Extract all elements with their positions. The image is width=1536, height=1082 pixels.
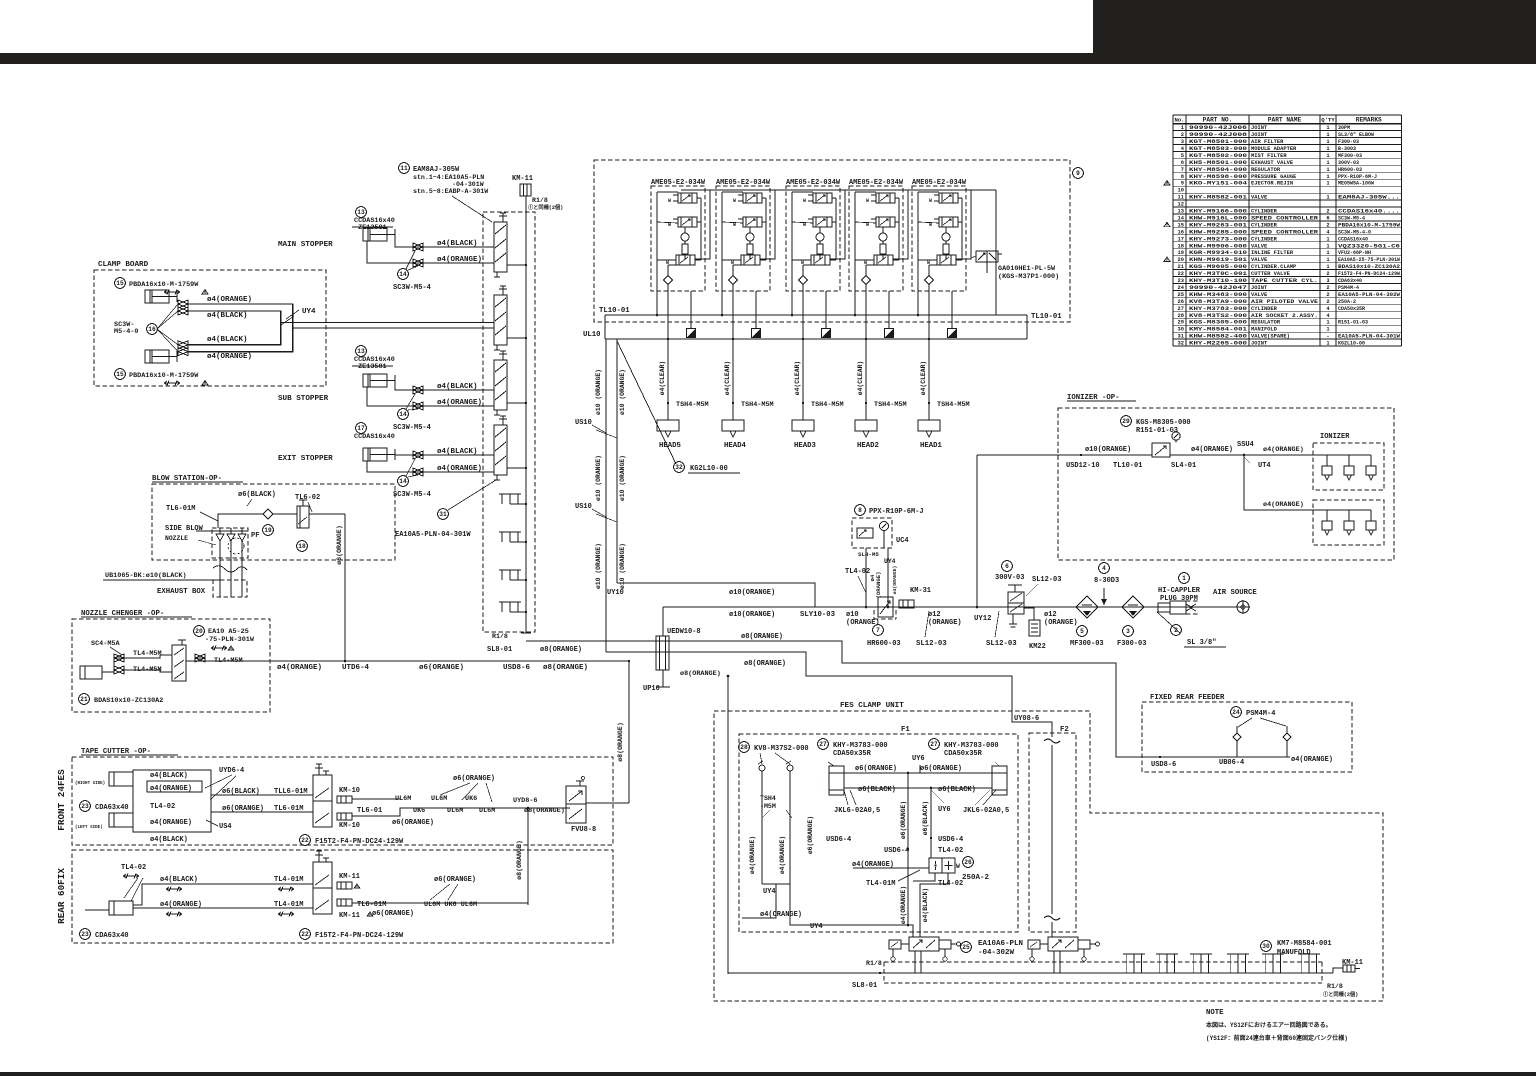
svg-text:7: 7 (1181, 167, 1184, 173)
wire unit1 pilot feed (695, 190, 710, 259)
svg-text:SC3W-M5-4: SC3W-M5-4 (393, 284, 431, 292)
svg-text:MANUFOLD: MANUFOLD (1277, 949, 1311, 957)
check valve 19 (263, 509, 273, 519)
svg-text:ø8(ORANGE): ø8(ORANGE) (540, 646, 582, 654)
svg-text:13: 13 (357, 348, 365, 355)
manifold blank tees (1123, 953, 1145, 955)
svg-text:MAIN STOPPER: MAIN STOPPER (278, 241, 333, 249)
svg-text:KM-31: KM-31 (910, 587, 931, 595)
silencer under unit1 (690, 291, 692, 328)
bus TL10-01 (605, 314, 1027, 316)
svg-text:CDA63x40: CDA63x40 (95, 804, 129, 812)
svg-text:CYLINDER: CYLINDER (1251, 222, 1278, 228)
svg-text:ø4(ORANGE): ø4(ORANGE) (900, 886, 907, 924)
svg-text:CCDAS16x40: CCDAS16x40 (354, 433, 395, 441)
svg-text:ø4(BLACK): ø4(BLACK) (150, 836, 188, 844)
wire unit5 pilot feed (956, 190, 971, 259)
svg-text:PF: PF (251, 532, 259, 540)
valve manifold box (483, 212, 535, 632)
wire unit3 to head (802, 291, 804, 420)
svg-text:USD6-4: USD6-4 (938, 836, 963, 844)
svg-text:W: W (929, 198, 932, 204)
svg-text:KM-11: KM-11 (339, 912, 360, 920)
wire #4 orange to valve 26 (853, 867, 929, 869)
svg-text:ø12: ø12 (928, 611, 941, 619)
cylinder 23 front left CDA63x40 (109, 813, 133, 827)
wire EXIT STOPPER port B (367, 461, 494, 472)
svg-text:300V-03: 300V-03 (995, 574, 1024, 582)
svg-text:KM22: KM22 (1029, 643, 1046, 651)
svg-text:FIXED REAR FEEDER: FIXED REAR FEEDER (1150, 694, 1225, 702)
wire unit2 feed to bus (721, 291, 723, 315)
head HEAD4 (722, 420, 744, 431)
svg-text:ø4(BLACK): ø4(BLACK) (150, 772, 188, 780)
svg-text:ø4(ORANGE): ø4(ORANGE) (1263, 501, 1304, 509)
wire unit3 pilot feed (830, 190, 845, 259)
svg-text:JOINT: JOINT (1251, 125, 1268, 131)
svg-text:VALVE: VALVE (1251, 292, 1268, 298)
svg-text:UL10: UL10 (583, 331, 601, 339)
svg-text:①と同種(2個): ①と同種(2個) (528, 203, 563, 211)
svg-text:30PM: 30PM (1338, 125, 1350, 131)
svg-text:ø10 (ORANGE): ø10 (ORANGE) (619, 455, 626, 501)
svg-text:KGS-M9605-000: KGS-M9605-000 (1189, 264, 1247, 270)
speed controller pair MAIN STOPPER (413, 243, 423, 251)
svg-text:ø4(ORANGE): ø4(ORANGE) (852, 861, 894, 869)
manifold valve station 1 (494, 213, 514, 277)
svg-text:R1/8: R1/8 (1327, 983, 1343, 990)
svg-text:ø10(ORANGE): ø10(ORANGE) (729, 611, 775, 619)
svg-text:31: 31 (1178, 334, 1184, 340)
svg-text:1: 1 (1326, 327, 1329, 333)
manifold 30 KM7-M8584-001 (1261, 941, 1272, 952)
svg-text:USD8-6: USD8-6 (503, 664, 531, 672)
svg-text:UP10: UP10 (643, 685, 660, 693)
regulator symbol 29 (1152, 443, 1170, 457)
svg-text:19: 19 (264, 527, 272, 534)
svg-text:UYD6-4: UYD6-4 (219, 767, 244, 775)
svg-text:VALVE(SPARE): VALVE(SPARE) (1251, 334, 1290, 340)
rear wires (133, 884, 313, 905)
svg-text:CDA50x35R: CDA50x35R (1338, 306, 1365, 312)
svg-text:-04-301W: -04-301W (452, 181, 484, 188)
svg-text:KHW-M916L-000: KHW-M916L-000 (1189, 215, 1247, 221)
svg-text:CDA63x40: CDA63x40 (1338, 278, 1362, 284)
svg-text:R151-01-G3: R151-01-G3 (1338, 320, 1368, 326)
tube #10 ORANGE column B (616, 339, 618, 583)
svg-text:W: W (956, 863, 960, 870)
svg-text:PBDA16x10-M-1759W: PBDA16x10-M-1759W (129, 372, 199, 380)
svg-text:CDA50x35R: CDA50x35R (944, 750, 983, 758)
svg-text:KHW-M9285-000: KHW-M9285-000 (1189, 229, 1247, 235)
svg-text:TL4-02: TL4-02 (150, 803, 175, 811)
svg-text:UY4: UY4 (763, 888, 776, 896)
svg-text:2: 2 (1326, 222, 1329, 228)
svg-text:W: W (733, 222, 736, 228)
svg-text:ø6(ORANGE): ø6(ORANGE) (920, 765, 962, 773)
tube #8 line from manifold (526, 641, 1142, 757)
wire MAIN STOPPER port A (395, 235, 494, 248)
air filter 3 F300-03 (1122, 596, 1144, 618)
svg-text:EA10A5-25-75-PLN-301W: EA10A5-25-75-PLN-301W (1338, 257, 1400, 263)
svg-text:SL4-01: SL4-01 (1171, 462, 1196, 470)
svg-text:250A-2: 250A-2 (1338, 299, 1356, 305)
cylinder 21 BDAS10x10 (80, 666, 102, 679)
svg-text:21: 21 (1178, 264, 1184, 270)
svg-text:US4: US4 (219, 823, 232, 831)
svg-text:32: 32 (1178, 341, 1184, 347)
svg-text:SL4-M5: SL4-M5 (858, 551, 879, 558)
svg-text:UB06-4: UB06-4 (1219, 759, 1244, 767)
svg-text:UY6: UY6 (912, 755, 925, 763)
svg-text:90990-42J047: 90990-42J047 (1189, 285, 1247, 291)
svg-text:MIST FILTER: MIST FILTER (1251, 153, 1287, 159)
hi-cappler plug 1 (1179, 573, 1190, 584)
svg-text:1: 1 (1326, 264, 1329, 270)
svg-text:KHN-M9619-501: KHN-M9619-501 (1189, 257, 1247, 263)
svg-text:20: 20 (195, 628, 203, 635)
svg-text:1: 1 (1326, 181, 1329, 187)
svg-text:TL4-01M: TL4-01M (274, 876, 303, 884)
cylinder 27 left CDA50x35R (818, 739, 829, 750)
svg-text:ø10(ORANGE): ø10(ORANGE) (729, 589, 775, 597)
bottom border bar (0, 1072, 1536, 1076)
svg-text:1: 1 (1182, 575, 1186, 582)
connector KM-31 (899, 600, 914, 608)
svg-text:SPEED CONTROLLER: SPEED CONTROLLER (1251, 229, 1319, 235)
svg-text:FVU8-8: FVU8-8 (571, 826, 596, 834)
wire unit3 feed to bus (791, 291, 793, 315)
wire unit2 to head (732, 291, 734, 420)
svg-text:ø4(ORANGE): ø4(ORANGE) (437, 256, 482, 264)
svg-text:15: 15 (1178, 222, 1184, 228)
svg-text:USD6-4: USD6-4 (884, 847, 909, 855)
tube #10 ORANGE column A (605, 339, 607, 652)
rear air line (352, 902, 528, 904)
head HEAD1 (918, 420, 940, 431)
svg-text:SL12-03: SL12-03 (986, 640, 1017, 648)
svg-text:PSM4M-4: PSM4M-4 (1338, 285, 1359, 291)
svg-text:23: 23 (81, 803, 89, 810)
svg-text:REGULATOR: REGULATOR (1251, 320, 1281, 326)
svg-text:KHY-M9273-000: KHY-M9273-000 (1189, 236, 1247, 242)
svg-text:UY4: UY4 (810, 923, 823, 931)
svg-text:ø4(ORANGE): ø4(ORANGE) (749, 836, 756, 874)
svg-text:6: 6 (1326, 215, 1329, 221)
joint diamond B (1286, 726, 1288, 733)
svg-text:15: 15 (116, 280, 124, 287)
svg-text:CYLINDER.CLAMP: CYLINDER.CLAMP (1251, 264, 1296, 270)
exhaust valve 6 300V-03 (1002, 561, 1013, 572)
svg-text:KHY-M3783-000: KHY-M3783-000 (944, 742, 999, 750)
svg-text:27: 27 (819, 741, 827, 748)
svg-text:EA10 A5-25: EA10 A5-25 (208, 628, 249, 636)
svg-text:ø8(ORANGE): ø8(ORANGE) (543, 664, 588, 672)
svg-text:UL6M: UL6M (447, 807, 463, 815)
svg-text:16: 16 (148, 326, 156, 333)
cylinder 15 lower PBDA16x10 (115, 369, 126, 380)
svg-text:UK6: UK6 (465, 795, 477, 803)
svg-text:28: 28 (1178, 313, 1184, 319)
svg-text:EJECTOR.REJIN: EJECTOR.REJIN (1251, 181, 1293, 187)
svg-text:SL12-03: SL12-03 (916, 640, 947, 648)
svg-text:UY4: UY4 (884, 558, 896, 565)
connector UEDW10-8 (662, 607, 664, 636)
svg-text:1: 1 (1326, 257, 1329, 263)
svg-text:PLUG 30PM: PLUG 30PM (1160, 595, 1198, 603)
joint diamond A (1236, 726, 1238, 733)
svg-text:VFU2-66P-NH: VFU2-66P-NH (1338, 250, 1371, 256)
svg-text:MF300-03: MF300-03 (1070, 640, 1104, 648)
svg-text:8: 8 (1181, 174, 1184, 180)
svg-text:6: 6 (1181, 160, 1184, 166)
svg-text:B-3003: B-3003 (1338, 146, 1356, 152)
svg-text:ø12: ø12 (1044, 611, 1057, 619)
svg-text:TL10-01: TL10-01 (599, 307, 630, 315)
svg-text:250A-2: 250A-2 (962, 874, 990, 882)
svg-text:9: 9 (1076, 170, 1080, 177)
svg-text:ø8(ORANGE): ø8(ORANGE) (524, 807, 565, 815)
svg-text:ø8(ORANGE): ø8(ORANGE) (617, 722, 624, 762)
bus UL10 (605, 338, 1027, 340)
svg-text:W: W (866, 198, 869, 204)
svg-text:2: 2 (1326, 271, 1329, 277)
svg-text:ø4(BLACK): ø4(BLACK) (437, 383, 478, 391)
svg-text:KH5-M8501-000: KH5-M8501-000 (1189, 160, 1247, 166)
svg-text:CLAMP BOARD: CLAMP BOARD (98, 261, 149, 269)
svg-text:15: 15 (116, 371, 124, 378)
connector KM-11 rear B (337, 899, 352, 906)
svg-text:ø10 (ORANGE): ø10 (ORANGE) (619, 369, 626, 415)
svg-text:VQZ3320-5G1-C6: VQZ3320-5G1-C6 (1338, 243, 1400, 249)
bus SLY10-03 air line (663, 606, 1238, 608)
svg-text:GA010HE1-PL-5W: GA010HE1-PL-5W (998, 265, 1056, 273)
svg-text:HI-CAPPLER: HI-CAPPLER (1158, 587, 1201, 595)
svg-text:ø4(ORANGE): ø4(ORANGE) (277, 664, 322, 672)
svg-text:PART NAME: PART NAME (1268, 116, 1302, 123)
svg-text:BDAS10x10-ZC130A2: BDAS10x10-ZC130A2 (94, 697, 163, 705)
wire unit4 pilot feed (893, 190, 908, 259)
svg-text:ø4(BLACK): ø4(BLACK) (437, 240, 478, 248)
label 32 KG2L10-00 (617, 341, 676, 464)
svg-text:26: 26 (964, 859, 972, 866)
svg-text:AIR FILTER: AIR FILTER (1251, 139, 1284, 145)
svg-text:SC4-M5A: SC4-M5A (91, 640, 120, 648)
svg-text:KHY-M2265-000: KHY-M2265-000 (1189, 341, 1247, 347)
svg-text:KHY-M3T10-100: KHY-M3T10-100 (1189, 278, 1247, 284)
svg-text:TLL6-01M: TLL6-01M (274, 788, 308, 796)
svg-text:UK6: UK6 (413, 807, 425, 815)
svg-text:TL6-01M: TL6-01M (166, 505, 195, 513)
svg-text:KGT-M8502-000: KGT-M8502-000 (1189, 153, 1247, 159)
svg-text:1: 1 (1326, 132, 1329, 138)
manifold valve station 3 (494, 351, 514, 415)
cylinder 23 rear CDA63x40 (109, 901, 133, 915)
svg-text:US10: US10 (575, 419, 592, 427)
svg-text:ø4(BLACK): ø4(BLACK) (437, 448, 478, 456)
svg-text:KM-10: KM-10 (339, 787, 360, 795)
svg-text:AIR PILOTED VALVE: AIR PILOTED VALVE (1251, 299, 1319, 305)
svg-text:21: 21 (80, 696, 88, 703)
wire UY4 pair (281, 322, 494, 324)
svg-text:IONIZER: IONIZER (1320, 433, 1350, 441)
svg-text:W: W (733, 198, 736, 204)
svg-text:FRONT 24FES: FRONT 24FES (56, 769, 67, 831)
svg-text:TSH4: TSH4 (760, 795, 776, 802)
speed controllers nozzle chenger (114, 654, 124, 662)
valve26 down wires (913, 873, 935, 881)
svg-text:1: 1 (1326, 153, 1329, 159)
svg-text:UB1065-BK:ø10(BLACK): UB1065-BK:ø10(BLACK) (105, 572, 187, 580)
feeder wire (1142, 756, 1290, 758)
svg-text:KHW-M8582-400: KHW-M8582-400 (1189, 334, 1247, 340)
wire SUB STOPPER port A (395, 381, 494, 391)
svg-text:stn.1~4:EA10A5-PLN: stn.1~4:EA10A5-PLN (413, 174, 484, 181)
svg-text:ø4(ORANGE): ø4(ORANGE) (1291, 756, 1333, 764)
svg-text:EA10A5-PLN-04-302W: EA10A5-PLN-04-302W (1338, 292, 1400, 298)
svg-text:CCDAS16x40: CCDAS16x40 (1338, 236, 1368, 242)
svg-text:ø4(ORANGE): ø4(ORANGE) (160, 901, 202, 909)
svg-text:30: 30 (1262, 943, 1270, 950)
svg-text:25: 25 (962, 944, 970, 951)
cylinder 23 front right CDA63x40 (109, 772, 133, 786)
label 2 SL 3/8 (1157, 612, 1180, 633)
break symbol F2 top (1044, 739, 1060, 743)
svg-text:(ORANGE): (ORANGE) (928, 619, 962, 627)
valve 18 (297, 506, 309, 528)
svg-text:US10: US10 (575, 503, 592, 511)
svg-text:AIR SOURCE: AIR SOURCE (1213, 589, 1257, 597)
svg-text:KGS-M8305-000: KGS-M8305-000 (1189, 320, 1247, 326)
svg-text:SL8-01: SL8-01 (852, 982, 877, 990)
wires valve25 to bus (914, 951, 916, 962)
svg-text:-75-PLN-301W: -75-PLN-301W (205, 636, 255, 644)
cylinder 13 SUB STOPPER (356, 346, 367, 357)
air sockets 28 (739, 742, 750, 753)
svg-text:KV8-M37S2-000: KV8-M37S2-000 (754, 745, 809, 753)
joints 24 PSM4M-4 (1231, 707, 1242, 718)
svg-text:TL6-02: TL6-02 (295, 494, 320, 502)
svg-text:5: 5 (1080, 628, 1084, 635)
svg-text:UYD8-6: UYD8-6 (513, 797, 537, 805)
svg-text:14: 14 (1178, 215, 1185, 221)
svg-text:EAM8AJ-305W: EAM8AJ-305W (413, 166, 460, 174)
svg-text:ø8(ORANGE): ø8(ORANGE) (744, 660, 786, 668)
manifold valve station 4 (494, 416, 514, 480)
svg-text:KMY-M8584-001: KMY-M8584-001 (1189, 327, 1247, 333)
valve unit AME05-E2-034W #1 (651, 179, 706, 291)
svg-text:ø6(ORANGE): ø6(ORANGE) (434, 876, 476, 884)
svg-text:ø4(BLACK): ø4(BLACK) (207, 312, 248, 320)
tube #8 ORANGE drop to tape cutter (628, 661, 630, 803)
svg-text:F15T2-F4-PN-DC24-129W: F15T2-F4-PN-DC24-129W (315, 838, 404, 846)
main tube line to tape cutter (270, 660, 629, 662)
svg-text:ø4(ORANGE): ø4(ORANGE) (779, 836, 786, 874)
svg-text:ø10: ø10 (846, 611, 859, 619)
svg-text:KHY-M9263-001: KHY-M9263-001 (1189, 222, 1247, 228)
svg-text:ø10 (ORANGE): ø10 (ORANGE) (619, 543, 626, 589)
wire unit4 to head (865, 291, 867, 420)
silencer under unit4 (888, 291, 890, 328)
svg-text:(LEFT SIDE): (LEFT SIDE) (75, 825, 103, 830)
svg-text:-04-302W: -04-302W (978, 949, 1015, 957)
svg-text:ø6(ORANGE): ø6(ORANGE) (392, 819, 434, 827)
pressure gauge 8 PPX-R10P-6M-J (855, 505, 866, 516)
svg-text:(YS12F：前面24連台車＋背面60連固定バンク仕様): (YS12F：前面24連台車＋背面60連固定バンク仕様) (1206, 1034, 1348, 1042)
svg-text:ø4(ORANGE): ø4(ORANGE) (207, 296, 252, 304)
svg-text:JOINT: JOINT (1251, 341, 1268, 347)
valve FVU8-8 (566, 777, 586, 824)
svg-text:90990-42J006: 90990-42J006 (1189, 125, 1247, 131)
manifold valve 25 station F2 (1048, 937, 1078, 951)
svg-text:CDA50x35R: CDA50x35R (833, 750, 872, 758)
valve unit AME05-E2-034W #2 (716, 179, 771, 291)
svg-text:CYLINDER: CYLINDER (1251, 209, 1278, 215)
svg-text:ø6(BLACK): ø6(BLACK) (238, 491, 276, 499)
svg-text:TSH4-M5M: TSH4-M5M (741, 401, 774, 409)
cutter valve 22 rear (313, 862, 332, 914)
svg-text:ø4(CLEAR): ø4(CLEAR) (920, 361, 927, 396)
svg-text:TL4-02: TL4-02 (938, 847, 963, 855)
svg-text:1: 1 (1326, 160, 1329, 166)
wire right feed (995, 190, 997, 315)
svg-text:HEAD3: HEAD3 (794, 442, 817, 450)
svg-text:FES CLAMP UNIT: FES CLAMP UNIT (840, 702, 904, 710)
wire to ionizer bar 1 (1244, 454, 1316, 456)
svg-text:KHY-M9166-000: KHY-M9166-000 (1189, 209, 1247, 215)
svg-text:SC3W-M5-4: SC3W-M5-4 (1338, 215, 1365, 221)
svg-text:CYLINDER: CYLINDER (1251, 236, 1278, 242)
svg-text:TL4-02: TL4-02 (121, 864, 146, 872)
svg-text:SPEED CONTROLLER: SPEED CONTROLLER (1251, 215, 1319, 221)
svg-text:ø8(ORANGE): ø8(ORANGE) (516, 840, 523, 880)
svg-text:USD8-6: USD8-6 (1151, 761, 1176, 769)
svg-text:MF300-03: MF300-03 (1338, 153, 1362, 159)
node SSU4 (1243, 454, 1246, 457)
head HEAD2 (855, 420, 877, 431)
svg-text:VALVE: VALVE (1251, 243, 1268, 249)
svg-text:TSH4-M5M: TSH4-M5M (937, 401, 970, 409)
wire unit5 to head (928, 291, 930, 420)
svg-text:ø6(ORANGE): ø6(ORANGE) (419, 664, 464, 672)
connector KM-11 right (1333, 968, 1343, 973)
label 11 EAM8AJ-305W (399, 163, 410, 174)
svg-text:22: 22 (301, 931, 309, 938)
svg-text:USD12-10: USD12-10 (1066, 462, 1100, 470)
svg-text:14: 14 (399, 271, 407, 278)
svg-text:KHY-M3783-000: KHY-M3783-000 (1189, 306, 1247, 312)
svg-text:12: 12 (1178, 202, 1184, 208)
valve unit AME05-E2-034W #3 (786, 179, 841, 291)
svg-text:Q'TY: Q'TY (1321, 116, 1335, 123)
svg-text:13: 13 (1178, 209, 1184, 215)
svg-text:UC4: UC4 (896, 537, 909, 545)
svg-text:CDA63x40: CDA63x40 (95, 932, 129, 940)
svg-text:KHY-M8504-000: KHY-M8504-000 (1189, 167, 1247, 173)
svg-text:SC3W-M5-4: SC3W-M5-4 (393, 424, 431, 432)
svg-text:ø4(ORANGE): ø4(ORANGE) (150, 819, 192, 827)
head HEAD5 (657, 420, 679, 431)
svg-text:JOINT: JOINT (1251, 132, 1268, 138)
svg-text:KGT-M8501-000: KGT-M8501-000 (1189, 139, 1247, 145)
svg-text:24: 24 (1232, 709, 1240, 716)
svg-text:TL6-01M: TL6-01M (357, 901, 386, 909)
svg-text:90990-42J008: 90990-42J008 (1189, 132, 1247, 138)
svg-text:19: 19 (1178, 250, 1184, 256)
svg-text:SC3W-M5-4-0: SC3W-M5-4-0 (1338, 229, 1371, 235)
svg-text:PSM4M-4: PSM4M-4 (1246, 710, 1275, 718)
svg-text:EXHAUST VALVE: EXHAUST VALVE (1251, 160, 1294, 166)
